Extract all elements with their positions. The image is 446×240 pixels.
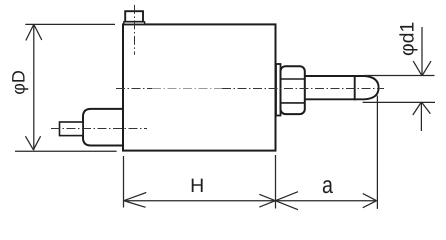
svg-text:a: a <box>322 172 333 199</box>
svg-text:φD: φD <box>9 70 29 95</box>
svg-text:H: H <box>190 175 204 197</box>
svg-text:φd1: φd1 <box>397 22 419 56</box>
